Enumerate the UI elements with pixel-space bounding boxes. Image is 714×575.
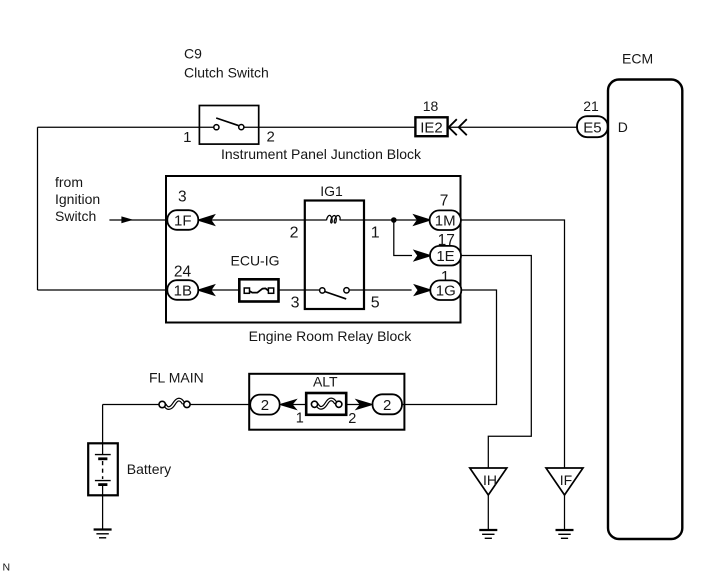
wire battery to ground	[102, 495, 104, 529]
svg-text:5: 5	[371, 294, 380, 311]
arrow from ignition switch	[121, 216, 133, 223]
connector ALT 2 right	[373, 394, 403, 414]
svg-text:Engine Room Relay Block: Engine Room Relay Block	[249, 328, 413, 344]
battery plate long top	[95, 454, 111, 456]
fuse ECU-IG element	[244, 288, 249, 293]
wire IF to ground	[564, 495, 566, 530]
clutch switch C9 box	[199, 106, 258, 145]
wire IE2 to E5	[449, 126, 578, 128]
ground IH	[479, 529, 497, 531]
wire 1M to IF column	[461, 220, 565, 468]
svg-text:FL MAIN: FL MAIN	[149, 370, 204, 386]
arrow at 1G	[413, 284, 430, 296]
wire junction down to 1E row	[394, 220, 412, 256]
triangle connector IF	[546, 468, 583, 495]
wire coil to block edge	[340, 219, 417, 221]
arrow at 1E	[413, 249, 430, 261]
battery plate short thick top	[98, 457, 107, 460]
battery plate short thick bottom	[98, 483, 107, 486]
connector E5	[577, 116, 608, 137]
wire 1B to ECU-IG fuse	[198, 289, 240, 291]
wire from ignition switch with arrow	[109, 219, 167, 221]
wire left vertical riser	[37, 127, 39, 290]
wire 1F to IG1 coil	[198, 219, 326, 221]
connector 1E	[430, 246, 461, 266]
fuse ECU-IG box	[239, 279, 278, 301]
svg-text:2: 2	[383, 397, 391, 414]
svg-text:ALT: ALT	[313, 374, 338, 390]
wire fusible link to ALT	[190, 404, 250, 406]
svg-text:N: N	[3, 561, 11, 573]
fuse ALT box	[306, 393, 346, 415]
Engine Room Relay Block box	[166, 176, 461, 323]
svg-text:2: 2	[267, 129, 275, 146]
wire left riser to 1B	[38, 289, 168, 291]
chevron arrow at IE2	[449, 119, 457, 135]
ECM body	[608, 80, 682, 540]
svg-text:3: 3	[178, 188, 187, 205]
label C9 Clutch Switch	[184, 46, 269, 81]
ALT block box	[249, 374, 404, 430]
clutch switch lever	[216, 118, 238, 126]
fusible link FL MAIN	[165, 400, 184, 408]
arrow at ALT left	[281, 399, 298, 411]
relay IG1 switch contact right	[344, 288, 349, 293]
svg-text:1: 1	[371, 225, 380, 242]
svg-text:1: 1	[296, 411, 304, 427]
relay IG1 coil	[327, 215, 341, 223]
svg-text:18: 18	[423, 98, 439, 114]
svg-text:2: 2	[290, 225, 299, 242]
svg-text:1E: 1E	[436, 248, 454, 265]
wire battery to fusible link	[103, 404, 160, 406]
svg-text:Switch: Switch	[55, 208, 96, 224]
connector ALT 2 left	[250, 395, 280, 415]
junction node	[391, 217, 397, 223]
svg-text:Ignition: Ignition	[55, 191, 100, 207]
svg-text:D: D	[618, 119, 628, 135]
svg-text:1M: 1M	[435, 213, 456, 230]
relay IG1 switch lever	[325, 292, 347, 299]
wire switch to 1G arrow	[349, 289, 411, 291]
svg-text:from: from	[55, 174, 83, 190]
svg-text:IF: IF	[560, 472, 572, 488]
connector IE2	[415, 117, 447, 136]
svg-text:1F: 1F	[174, 213, 192, 230]
svg-text:21: 21	[583, 98, 599, 114]
wire clutch switch to IE2	[244, 126, 415, 128]
svg-text:IE2: IE2	[420, 119, 443, 136]
svg-text:3: 3	[291, 294, 300, 311]
clutch switch contact right	[239, 125, 244, 130]
arrow at 1F	[199, 214, 216, 226]
wire 1E to IH column	[461, 256, 531, 469]
triangle connector IH	[470, 468, 507, 495]
svg-text:Clutch Switch: Clutch Switch	[184, 65, 269, 81]
clutch switch contact left	[214, 125, 219, 130]
battery box	[88, 443, 118, 495]
wire arrow to fuse	[280, 404, 307, 406]
battery dashed link	[102, 461, 104, 479]
svg-text:ECM: ECM	[622, 51, 653, 67]
svg-text:E5: E5	[583, 119, 601, 136]
arrow at ALT right	[355, 399, 372, 411]
wire 1G to ALT	[402, 290, 497, 405]
wire fuse to right arrow	[346, 404, 373, 406]
svg-text:IH: IH	[483, 472, 497, 488]
connector 1F	[167, 210, 198, 230]
svg-text:1B: 1B	[174, 283, 192, 300]
svg-text:2: 2	[348, 411, 356, 427]
battery riser wire	[102, 405, 104, 444]
svg-text:C9: C9	[184, 46, 202, 62]
svg-text:7: 7	[440, 193, 449, 210]
relay IG1 box	[305, 201, 364, 310]
arrow at 1B	[199, 284, 216, 296]
svg-text:24: 24	[174, 263, 192, 280]
svg-text:1G: 1G	[436, 283, 456, 300]
ground battery	[94, 528, 112, 530]
relay IG1 switch contact left	[320, 288, 325, 293]
label from Ignition Switch	[55, 174, 100, 224]
battery internal top lead	[102, 443, 104, 454]
svg-text:1: 1	[183, 129, 191, 146]
ground IF	[556, 529, 574, 531]
svg-text:Instrument Panel Junction Bloc: Instrument Panel Junction Block	[221, 146, 422, 162]
connector 1M	[430, 210, 461, 230]
svg-text:2: 2	[261, 397, 269, 414]
wire from left vertical riser to clutch switch pin 1	[38, 126, 214, 128]
svg-text:Battery: Battery	[127, 461, 171, 477]
connector 1G	[430, 280, 461, 300]
svg-text:ECU-IG: ECU-IG	[231, 253, 280, 269]
wire ECU-IG to IG1 switch	[278, 289, 320, 291]
arrow at 1M	[412, 214, 429, 226]
battery plate long bottom	[95, 480, 111, 482]
connector 1B	[167, 280, 198, 300]
battery internal bottom lead	[102, 486, 104, 495]
wire IH to ground	[487, 495, 489, 530]
fusible link ALT element	[317, 399, 336, 407]
svg-text:IG1: IG1	[320, 183, 343, 199]
